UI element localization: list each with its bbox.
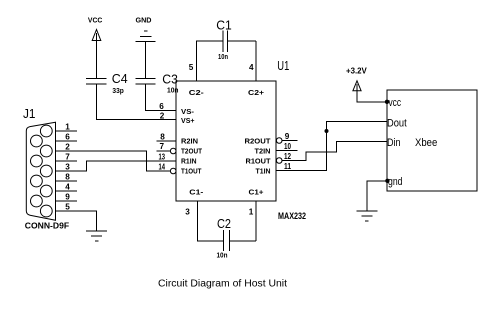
svg-text:R2OUT: R2OUT <box>245 136 271 145</box>
svg-text:10n: 10n <box>167 86 179 95</box>
svg-text:2: 2 <box>65 143 70 152</box>
svg-text:gnd: gnd <box>388 176 403 188</box>
svg-text:T2OUT: T2OUT <box>181 146 202 155</box>
svg-text:9: 9 <box>65 193 70 202</box>
svg-text:4: 4 <box>65 183 70 192</box>
svg-text:J1: J1 <box>23 106 36 121</box>
svg-text:VS-: VS- <box>181 107 195 116</box>
svg-text:T1OUT: T1OUT <box>181 166 202 175</box>
svg-text:C1+: C1+ <box>249 188 265 197</box>
svg-text:C1-: C1- <box>189 188 204 197</box>
svg-text:U1: U1 <box>277 58 289 73</box>
svg-text:Circuit Diagram of Host Unit: Circuit Diagram of Host Unit <box>158 279 287 290</box>
svg-text:8: 8 <box>160 133 165 142</box>
svg-text:5: 5 <box>65 203 70 212</box>
svg-text:13: 13 <box>159 152 166 161</box>
svg-text:T2IN: T2IN <box>255 146 271 155</box>
svg-text:GND: GND <box>136 15 153 24</box>
svg-text:Din: Din <box>387 137 401 149</box>
svg-text:12: 12 <box>284 152 291 161</box>
svg-text:10n: 10n <box>217 251 228 260</box>
svg-text:+3.2V: +3.2V <box>346 66 367 75</box>
svg-text:1: 1 <box>249 208 254 217</box>
svg-text:T1IN: T1IN <box>256 166 271 175</box>
svg-text:7: 7 <box>65 153 70 162</box>
svg-text:4: 4 <box>249 63 254 72</box>
svg-text:Dout: Dout <box>387 117 407 129</box>
svg-text:6: 6 <box>65 133 70 142</box>
svg-text:Xbee: Xbee <box>415 137 437 149</box>
svg-text:9: 9 <box>285 132 290 141</box>
svg-text:C4: C4 <box>112 71 128 86</box>
svg-text:10: 10 <box>284 142 291 151</box>
svg-text:R1OUT: R1OUT <box>246 156 271 165</box>
svg-text:C3: C3 <box>162 72 178 87</box>
svg-text:VCC: VCC <box>88 15 103 24</box>
svg-text:10n: 10n <box>218 52 228 61</box>
svg-text:C2-: C2- <box>189 88 205 97</box>
svg-text:3: 3 <box>185 208 190 217</box>
svg-text:11: 11 <box>284 162 291 171</box>
svg-text:6: 6 <box>159 102 164 111</box>
svg-text:33p: 33p <box>112 86 124 95</box>
svg-text:C1: C1 <box>216 18 232 33</box>
svg-text:5: 5 <box>189 63 194 72</box>
svg-text:1: 1 <box>65 123 70 132</box>
svg-text:7: 7 <box>160 142 165 151</box>
svg-text:8: 8 <box>65 173 70 182</box>
svg-text:R2IN: R2IN <box>181 136 198 145</box>
svg-text:3: 3 <box>65 163 70 172</box>
svg-text:2: 2 <box>160 111 165 120</box>
svg-text:vcc: vcc <box>389 97 402 109</box>
svg-text:C2: C2 <box>217 216 231 231</box>
svg-text:CONN-D9F: CONN-D9F <box>25 222 69 231</box>
svg-text:14: 14 <box>159 162 166 171</box>
svg-text:VS+: VS+ <box>181 116 195 125</box>
svg-text:R1IN: R1IN <box>181 156 197 165</box>
svg-text:C2+: C2+ <box>248 88 265 97</box>
svg-text:MAX232: MAX232 <box>278 211 306 221</box>
